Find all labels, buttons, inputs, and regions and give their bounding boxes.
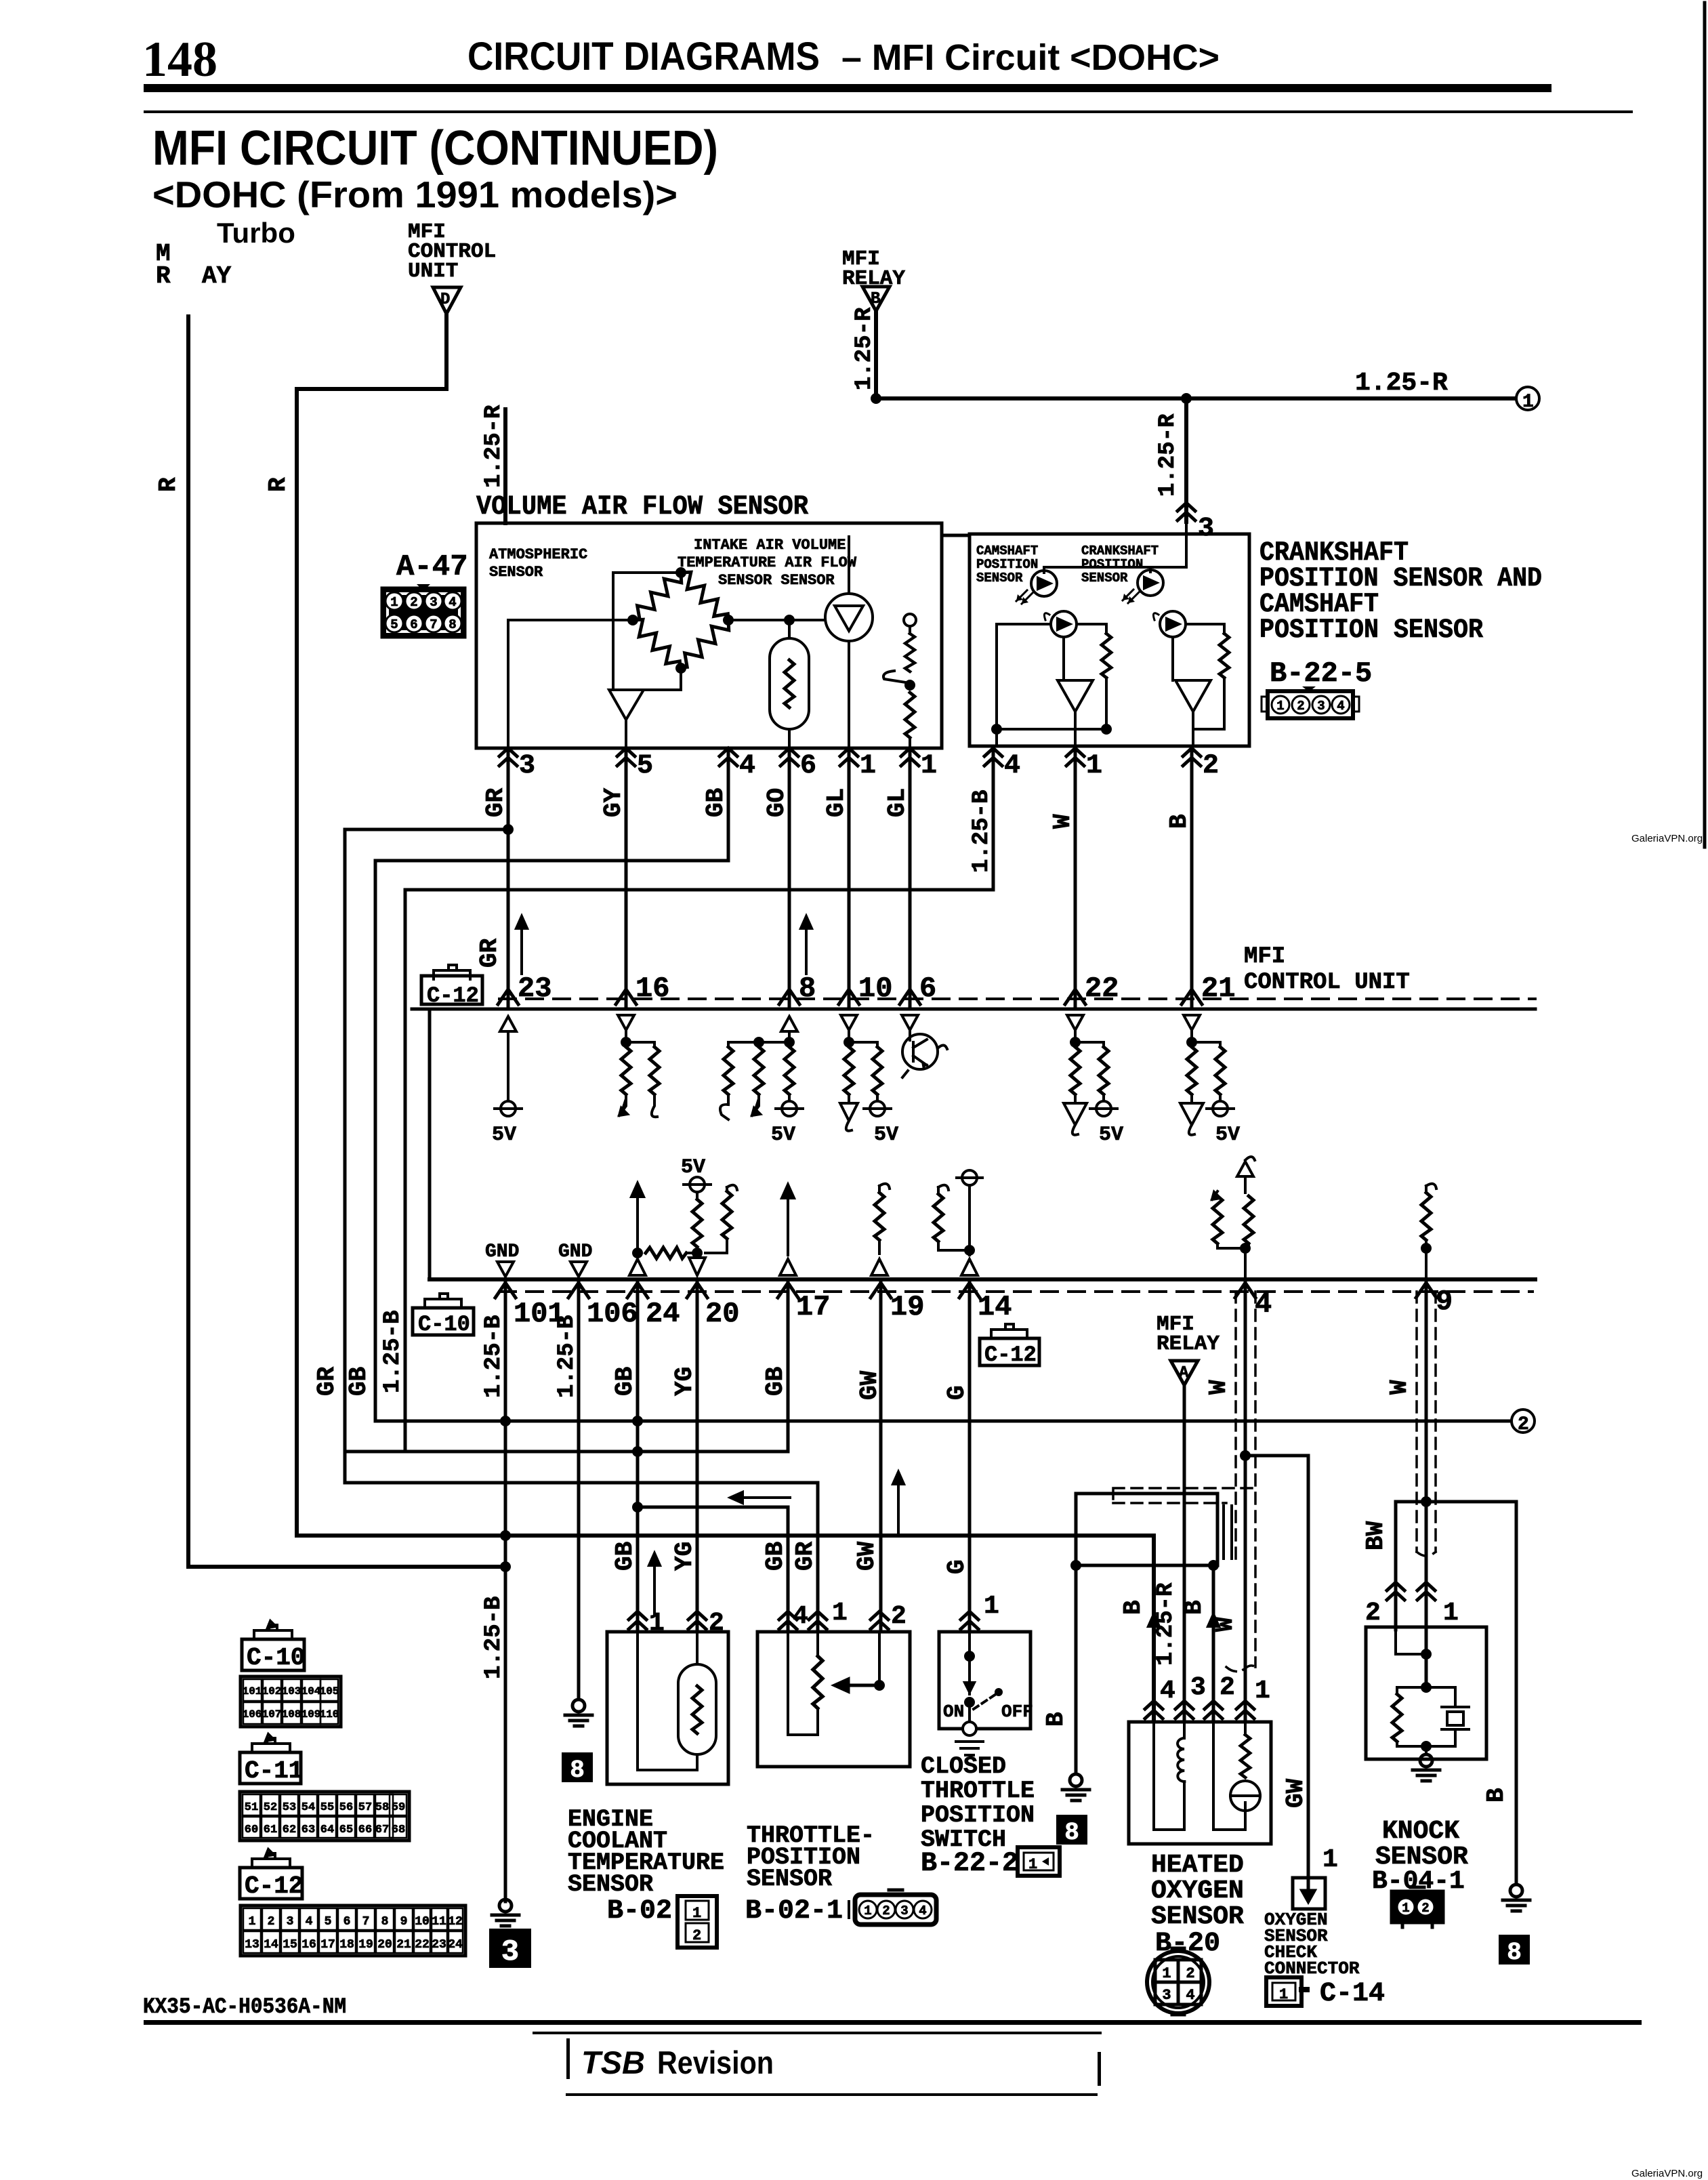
svg-text:23: 23 bbox=[518, 972, 551, 1005]
svg-text:10: 10 bbox=[415, 1915, 430, 1929]
svg-text:105: 105 bbox=[320, 1685, 339, 1698]
heater coil bbox=[1154, 1722, 1184, 1830]
header thick rule bbox=[144, 84, 1551, 92]
CTS internals: switch bbox=[965, 1632, 996, 1709]
svg-text:4: 4 bbox=[739, 751, 755, 781]
svg-text:22: 22 bbox=[1085, 972, 1119, 1005]
pin14 battery sense circle bbox=[957, 1170, 982, 1255]
svg-text:1: 1 bbox=[860, 751, 876, 781]
wire: 1.25-R drop to crank sensor box bbox=[1184, 398, 1188, 522]
svg-text:62: 62 bbox=[283, 1824, 296, 1836]
svg-text:1: 1 bbox=[390, 595, 398, 610]
wire: from MFI control unit D down and left bbox=[297, 314, 446, 1536]
svg-text:THROTTLE: THROTTLE bbox=[921, 1777, 1035, 1805]
svg-text:1.25-B: 1.25-B bbox=[481, 1315, 507, 1398]
svg-text:W: W bbox=[1211, 1617, 1239, 1632]
svg-text:B: B bbox=[871, 290, 880, 308]
dashed shield around wire 9 bbox=[1417, 1292, 1436, 1556]
pressure element with switch (right leg) bbox=[883, 614, 916, 748]
svg-text:3: 3 bbox=[519, 751, 535, 781]
bridge nodes bbox=[675, 567, 686, 578]
wire 20 YG to ECT pin2 bbox=[696, 1279, 699, 1630]
svg-text:6: 6 bbox=[410, 617, 417, 632]
TSB box top line bbox=[533, 2032, 1102, 2034]
svg-text:14: 14 bbox=[264, 1938, 278, 1952]
svg-text:GaleriaVPN.org: GaleriaVPN.org bbox=[1631, 2168, 1703, 2179]
svg-text:1: 1 bbox=[1255, 1677, 1270, 1706]
svg-text:3: 3 bbox=[287, 1915, 294, 1929]
svg-text:106: 106 bbox=[243, 1708, 262, 1721]
svg-text:148: 148 bbox=[142, 32, 217, 87]
svg-text:G: G bbox=[943, 1559, 971, 1574]
svg-text:C-10: C-10 bbox=[418, 1312, 470, 1337]
svg-text:B: B bbox=[1180, 1600, 1208, 1615]
svg-text:1: 1 bbox=[1086, 751, 1102, 781]
svg-text:19: 19 bbox=[358, 1938, 373, 1952]
connector B-20 (round 4 pin) bbox=[1147, 1949, 1209, 2014]
svg-text:10: 10 bbox=[858, 972, 892, 1005]
svg-text:GL: GL bbox=[883, 788, 911, 817]
svg-text:2: 2 bbox=[891, 1602, 907, 1631]
svg-text:2: 2 bbox=[410, 595, 417, 610]
VAF pin chevrons and numbers bbox=[499, 748, 937, 781]
pin23: 5V reference bbox=[492, 1016, 522, 1147]
svg-text:GO: GO bbox=[763, 788, 791, 817]
wire 4 W to HO2S pin1 bbox=[1244, 1279, 1247, 1720]
amp triangle crank bbox=[1175, 680, 1211, 712]
svg-text:G: G bbox=[943, 1385, 971, 1400]
wire: MFI relay B drop bbox=[874, 311, 878, 398]
LED crankshaft bbox=[1123, 570, 1163, 603]
pin10: dual resistors with 5V bbox=[840, 1015, 898, 1147]
knock internal wiring bbox=[1396, 1627, 1455, 1753]
wiper arrow bbox=[835, 1679, 879, 1691]
svg-text:60: 60 bbox=[245, 1824, 258, 1836]
svg-text:9: 9 bbox=[1436, 1286, 1453, 1318]
svg-text:2: 2 bbox=[1365, 1599, 1381, 1628]
svg-text:4: 4 bbox=[306, 1915, 313, 1929]
svg-text:5V: 5V bbox=[874, 1124, 898, 1147]
resistor cam channel bbox=[1102, 634, 1111, 678]
connector triangle B bbox=[862, 287, 890, 311]
VAF sensor box bbox=[476, 523, 942, 748]
knock resistor bbox=[1392, 1694, 1402, 1742]
BW wire down to knock pin2 bbox=[1394, 1502, 1398, 1630]
svg-text:CIRCUIT DIAGRAMS: CIRCUIT DIAGRAMS bbox=[467, 35, 820, 79]
resistor inside oval bbox=[785, 660, 794, 707]
cam bottom bus bbox=[997, 728, 1106, 731]
C-10 label box bbox=[242, 1621, 305, 1672]
svg-text:R: R bbox=[264, 477, 292, 492]
svg-text:GND: GND bbox=[558, 1241, 592, 1262]
svg-text:SENSOR: SENSOR bbox=[747, 1866, 832, 1893]
svg-text:CAMSHAFT: CAMSHAFT bbox=[976, 543, 1038, 558]
ECU pin marks boundary 2 bbox=[495, 1283, 1453, 1330]
up-arrow beside wire 24 bbox=[649, 1553, 660, 1614]
svg-text:6: 6 bbox=[343, 1915, 351, 1929]
svg-text:2: 2 bbox=[709, 1609, 724, 1638]
svg-text:R: R bbox=[154, 477, 182, 492]
svg-text:104: 104 bbox=[301, 1685, 321, 1698]
svg-text:POSITION SENSOR: POSITION SENSOR bbox=[1259, 615, 1483, 646]
svg-text:16: 16 bbox=[636, 972, 669, 1005]
svg-text:D: D bbox=[440, 291, 450, 309]
svg-text:1: 1 bbox=[1162, 1965, 1171, 1982]
svg-text:YG: YG bbox=[671, 1367, 699, 1396]
svg-text:GR: GR bbox=[313, 1366, 341, 1396]
svg-text:SENSOR: SENSOR bbox=[1081, 571, 1128, 585]
svg-text:MFI: MFI bbox=[1244, 944, 1285, 970]
branch to oxygen sensor check connector bbox=[1245, 1456, 1308, 1878]
svg-text:RELAY: RELAY bbox=[1157, 1332, 1220, 1356]
amp triangle cam bbox=[1058, 680, 1093, 712]
svg-text:KX35-AC-H0536A-NM: KX35-AC-H0536A-NM bbox=[143, 1994, 346, 2019]
ECT box bbox=[607, 1632, 728, 1784]
svg-text:1.25-B: 1.25-B bbox=[481, 1597, 507, 1679]
open triangle above boundary pin24 bbox=[629, 1259, 646, 1275]
C-12 connector symbol (ECU top) bbox=[421, 965, 482, 1008]
connector B-02-1 bbox=[849, 1890, 936, 1925]
LED camshaft bbox=[1016, 571, 1057, 604]
svg-text:5: 5 bbox=[390, 617, 398, 632]
svg-text:W: W bbox=[1205, 1380, 1232, 1395]
black box 8 right bbox=[1499, 1935, 1530, 1967]
svg-text:1.25-R: 1.25-R bbox=[1155, 413, 1181, 497]
header thin rule bbox=[144, 110, 1633, 113]
wire GL: VAF pin1 to ECU pin10 bbox=[848, 748, 851, 1008]
svg-text:Turbo: Turbo bbox=[217, 217, 295, 249]
svg-text:24: 24 bbox=[448, 1938, 463, 1952]
svg-text:1: 1 bbox=[692, 1905, 701, 1922]
TSB left tick bbox=[566, 2038, 570, 2079]
connector A-47 (8 pin) bbox=[383, 584, 464, 636]
boundary 2 dashed line bbox=[499, 1290, 1533, 1293]
CTS box bbox=[939, 1632, 1030, 1729]
wire 101 1.25-B to ground bbox=[504, 1279, 507, 1901]
H5: GB tap to TPS pin4 bbox=[638, 1507, 788, 1630]
TPS internals: potentiometer bbox=[788, 1632, 879, 1735]
svg-text:2: 2 bbox=[1421, 1901, 1429, 1916]
svg-text:GW: GW bbox=[1282, 1778, 1310, 1808]
connector C-14 bbox=[1266, 1977, 1307, 2006]
svg-text:2: 2 bbox=[882, 1904, 890, 1918]
svg-text:ON: ON bbox=[943, 1702, 964, 1722]
wire: VAF box to crank box bbox=[942, 534, 970, 537]
svg-text:4: 4 bbox=[1004, 751, 1020, 781]
svg-text:AY: AY bbox=[202, 262, 232, 290]
svg-text:2: 2 bbox=[1297, 699, 1304, 714]
junction 1.25-R tap bbox=[1181, 393, 1192, 404]
svg-text:5: 5 bbox=[637, 751, 653, 781]
svg-text:B: B bbox=[1119, 1600, 1147, 1615]
C-11 label box bbox=[240, 1734, 303, 1785]
svg-text:SENSOR: SENSOR bbox=[1151, 1902, 1244, 1931]
svg-text:Revision: Revision bbox=[657, 2044, 774, 2080]
svg-text:5V: 5V bbox=[771, 1124, 795, 1147]
ground for B wire bbox=[1062, 1774, 1089, 1801]
svg-text:C-12: C-12 bbox=[245, 1872, 303, 1900]
svg-text:C-10: C-10 bbox=[247, 1644, 305, 1672]
svg-text:GB: GB bbox=[762, 1542, 789, 1571]
svg-text:6: 6 bbox=[800, 751, 816, 781]
wire 14 G to throttle switch bbox=[968, 1279, 972, 1630]
parallel resistor pin20 bbox=[727, 1185, 737, 1191]
svg-text:22: 22 bbox=[415, 1938, 430, 1952]
svg-text:18: 18 bbox=[339, 1938, 354, 1952]
photodiode crankshaft bbox=[1153, 611, 1186, 637]
svg-text:1.25-R: 1.25-R bbox=[1355, 369, 1448, 398]
svg-text:107: 107 bbox=[262, 1708, 282, 1721]
svg-text:TSB: TSB bbox=[581, 2044, 645, 2080]
svg-text:1: 1 bbox=[1522, 392, 1534, 413]
junction at relay B corner bbox=[871, 393, 881, 404]
svg-text:110: 110 bbox=[320, 1708, 339, 1721]
svg-text:11: 11 bbox=[432, 1915, 446, 1929]
svg-text:19: 19 bbox=[890, 1291, 924, 1323]
pin19 pull resistor bbox=[879, 1184, 890, 1193]
circled connector 1 bbox=[1516, 387, 1539, 413]
crank pin chevrons and numbers bbox=[984, 748, 1219, 781]
svg-text:HEATED: HEATED bbox=[1151, 1851, 1244, 1880]
svg-text:INTAKE AIR VOLUME: INTAKE AIR VOLUME bbox=[694, 537, 846, 554]
svg-text:KNOCK: KNOCK bbox=[1382, 1817, 1459, 1846]
svg-text:1.25-R: 1.25-R bbox=[1153, 1582, 1179, 1666]
svg-text:B-22-2: B-22-2 bbox=[921, 1849, 1018, 1879]
open triangle pin19 bbox=[871, 1259, 888, 1275]
svg-text:57: 57 bbox=[358, 1801, 372, 1814]
svg-text:15: 15 bbox=[283, 1938, 297, 1952]
TSB box bottom line bbox=[566, 2093, 1098, 2096]
svg-text:GW: GW bbox=[853, 1541, 881, 1571]
C-12 connector grid bbox=[241, 1906, 465, 1956]
svg-text:24: 24 bbox=[646, 1298, 680, 1330]
svg-text:SENSOR: SENSOR bbox=[976, 571, 1023, 585]
svg-text:17: 17 bbox=[796, 1291, 830, 1323]
knock ground bbox=[1413, 1754, 1440, 1781]
pin24 sense wire with arrowhead bbox=[631, 1183, 644, 1253]
up-arrow annotation beside pin 23 bbox=[516, 916, 527, 974]
svg-text:GB: GB bbox=[702, 788, 730, 817]
wire: pin3 feed bus inside box bbox=[1044, 522, 1186, 573]
svg-text:GB: GB bbox=[345, 1367, 373, 1396]
svg-text:2: 2 bbox=[1220, 1673, 1235, 1702]
junction wire4 branch bbox=[1240, 1450, 1251, 1461]
wire GB: VAF pin4 to left rail bbox=[375, 748, 728, 1421]
svg-text:1: 1 bbox=[984, 1592, 999, 1621]
intake air temp sensor oval bbox=[770, 620, 809, 748]
sensor cell circle bbox=[1213, 1722, 1260, 1830]
photodiode camshaft bbox=[1044, 611, 1077, 637]
svg-text:UNIT: UNIT bbox=[408, 260, 458, 283]
svg-text:109: 109 bbox=[301, 1708, 321, 1721]
svg-text:12: 12 bbox=[448, 1915, 463, 1929]
svg-text:OXYGEN: OXYGEN bbox=[1151, 1876, 1244, 1906]
ground right B bbox=[1503, 1885, 1530, 1911]
svg-text:4: 4 bbox=[1160, 1677, 1175, 1706]
wire: bridge right node to oval and vortex sensor bbox=[728, 619, 825, 621]
svg-text:GR: GR bbox=[791, 1541, 819, 1571]
svg-text:2: 2 bbox=[1518, 1414, 1529, 1435]
HO2S box bbox=[1129, 1722, 1271, 1844]
GND triangle 1 bbox=[497, 1262, 514, 1277]
svg-text:1: 1 bbox=[1443, 1599, 1459, 1628]
wire: bridge top to left leg bbox=[613, 573, 681, 690]
svg-text:61: 61 bbox=[264, 1824, 277, 1836]
svg-text:103: 103 bbox=[282, 1685, 301, 1698]
svg-text:GY: GY bbox=[600, 787, 627, 817]
svg-text:GB: GB bbox=[611, 1367, 639, 1396]
ECT internals: thermistor oval bbox=[638, 1632, 716, 1770]
svg-text:5V: 5V bbox=[492, 1124, 516, 1147]
switch pivot and ground bbox=[956, 1702, 983, 1755]
B ground loop: corner, horizontals and verticals bbox=[1076, 1494, 1217, 1774]
H3: rail to TPS pin1 bbox=[345, 1483, 818, 1630]
svg-text:3: 3 bbox=[1190, 1673, 1206, 1702]
wire 1.25-R relay A to HO2S pin3 bbox=[1183, 1385, 1186, 1720]
svg-text:BW: BW bbox=[1362, 1521, 1390, 1550]
svg-text:B: B bbox=[1042, 1712, 1070, 1727]
svg-text:A: A bbox=[1179, 1364, 1189, 1382]
C-12 label box bbox=[240, 1849, 303, 1900]
ground for 101 wire bbox=[492, 1899, 519, 1926]
svg-text:16: 16 bbox=[301, 1938, 316, 1952]
wire 19 GW to TPS pin2 bbox=[879, 1279, 883, 1630]
svg-text:59: 59 bbox=[392, 1801, 405, 1814]
svg-text:1: 1 bbox=[1322, 1845, 1338, 1874]
wire: 1.25-R stub above VAF box bbox=[503, 409, 507, 523]
svg-text:8: 8 bbox=[1507, 1939, 1522, 1967]
amp triangle (atmospheric) bbox=[609, 690, 644, 720]
wire GO: VAF pin6 to ECU pin8 bbox=[788, 748, 791, 1008]
wire W: crank pin1 to ECU pin22 bbox=[1074, 748, 1077, 1008]
wire 9 W to knock sensor bbox=[1425, 1279, 1428, 1687]
connector B-04-1 bbox=[1392, 1887, 1442, 1927]
B wire to ground (right) bbox=[1515, 1502, 1518, 1884]
svg-text:1.25-R: 1.25-R bbox=[852, 307, 877, 390]
svg-text:108: 108 bbox=[282, 1708, 301, 1721]
wire GL2: VAF pin1 to ECU pin6 bbox=[909, 748, 912, 1008]
svg-text:4: 4 bbox=[1186, 1987, 1194, 2004]
open triangle pin17 bbox=[780, 1259, 796, 1275]
svg-text:2: 2 bbox=[1186, 1965, 1194, 1982]
H6: left R rail to 1.25-B ground wire bbox=[188, 1565, 505, 1569]
pin4 driver: flag triangle and dual resistors bbox=[1212, 1157, 1255, 1279]
C-12 connector symbol (pin 14) bbox=[980, 1324, 1039, 1367]
svg-text:8: 8 bbox=[799, 972, 816, 1005]
svg-text:B-22-5: B-22-5 bbox=[1270, 657, 1372, 690]
wire GR: VAF pin3 to ECU pin23 bbox=[507, 748, 510, 1008]
HO2S pin chevrons and numbers bbox=[1145, 1673, 1270, 1719]
svg-text:GW: GW bbox=[856, 1370, 883, 1400]
sensor cell resistor bbox=[1244, 1722, 1247, 1735]
svg-text:66: 66 bbox=[358, 1824, 372, 1836]
ground for 106 wire bbox=[565, 1700, 592, 1726]
crank channel wiring bbox=[1173, 624, 1224, 729]
svg-text:106: 106 bbox=[587, 1298, 638, 1330]
svg-text:54: 54 bbox=[301, 1801, 315, 1814]
pin6: transistor driver bbox=[902, 1015, 947, 1077]
svg-text:6: 6 bbox=[919, 972, 936, 1005]
svg-text:3: 3 bbox=[1162, 1987, 1171, 2004]
svg-text:1: 1 bbox=[649, 1609, 665, 1638]
svg-text:4: 4 bbox=[793, 1602, 808, 1631]
svg-text:B-02-1: B-02-1 bbox=[745, 1896, 843, 1927]
pin16: dual pull resistors bbox=[618, 1015, 659, 1117]
wire: amp out to pin 5 bbox=[625, 720, 627, 748]
svg-text:52: 52 bbox=[264, 1801, 277, 1814]
scan edge line (right) bbox=[1703, 3, 1707, 847]
wire: left R rail from MFI relay (cropped) bbox=[186, 316, 190, 1567]
svg-text:3: 3 bbox=[430, 595, 437, 610]
svg-text:5: 5 bbox=[325, 1915, 332, 1929]
up-arrow annotation beside pin 8 bbox=[801, 916, 812, 974]
svg-text:58: 58 bbox=[375, 1801, 389, 1814]
svg-text:4: 4 bbox=[919, 1904, 926, 1918]
svg-text:20: 20 bbox=[377, 1938, 392, 1952]
black box 8 (ECT ground) bbox=[562, 1752, 593, 1784]
svg-text:14: 14 bbox=[978, 1291, 1012, 1323]
svg-text:5V: 5V bbox=[681, 1156, 705, 1179]
C-11 connector grid bbox=[240, 1792, 409, 1840]
svg-text:CLOSED: CLOSED bbox=[921, 1753, 1006, 1780]
ECT pin chevrons and numbers bbox=[629, 1611, 646, 1629]
svg-text:1.25-B: 1.25-B bbox=[554, 1315, 580, 1398]
svg-text:GR: GR bbox=[476, 938, 503, 968]
svg-text:MFI CIRCUIT (CONTINUED): MFI CIRCUIT (CONTINUED) bbox=[152, 121, 718, 176]
CTS pin chevron bbox=[961, 1611, 978, 1629]
svg-text:SENSOR SENSOR: SENSOR SENSOR bbox=[718, 572, 835, 589]
junction GR tap bbox=[503, 824, 514, 835]
svg-text:GB: GB bbox=[762, 1367, 789, 1396]
svg-text:65: 65 bbox=[339, 1824, 353, 1836]
wire 106 1.25-B to ground bbox=[577, 1279, 581, 1700]
connector B-22-5 bbox=[1262, 686, 1359, 718]
C-10 connector grid bbox=[241, 1677, 341, 1727]
svg-text:C-12: C-12 bbox=[984, 1342, 1037, 1367]
H1: GB rail to circled 2 bbox=[375, 1420, 1512, 1423]
pin14 pull resistor bbox=[938, 1185, 949, 1194]
svg-text:20: 20 bbox=[705, 1298, 739, 1330]
svg-text:ATMOSPHERIC: ATMOSPHERIC bbox=[489, 546, 587, 563]
svg-text:B: B bbox=[1165, 814, 1193, 829]
ECU boundary 1 dashed line bbox=[499, 998, 1535, 1000]
svg-text:7: 7 bbox=[430, 617, 437, 632]
svg-text:C-14: C-14 bbox=[1320, 1979, 1385, 2009]
svg-text:4: 4 bbox=[449, 595, 456, 610]
svg-text:1: 1 bbox=[1279, 1986, 1288, 2003]
svg-text:53: 53 bbox=[283, 1801, 296, 1814]
knock sensor box bbox=[1366, 1627, 1486, 1759]
piezo element bbox=[1442, 1707, 1469, 1729]
svg-text:1: 1 bbox=[1028, 1856, 1037, 1873]
svg-text:3: 3 bbox=[1198, 514, 1214, 544]
ECU pin marks boundary 1 bbox=[498, 972, 1235, 1005]
ECU boundary 1 solid line bbox=[412, 1008, 1535, 1011]
wire: top 1.25-R horizontal bus to circled 1 bbox=[876, 396, 1516, 400]
svg-text:POSITION: POSITION bbox=[921, 1802, 1035, 1829]
connector B-22-2 bbox=[1018, 1847, 1060, 1876]
svg-text:51: 51 bbox=[245, 1801, 258, 1814]
crank/cam sensor box bbox=[970, 534, 1249, 746]
shield stub lines bbox=[1224, 1506, 1232, 1559]
svg-text:8: 8 bbox=[449, 617, 456, 632]
svg-text:CRANKSHAFT: CRANKSHAFT bbox=[1081, 543, 1159, 558]
svg-text:55: 55 bbox=[320, 1801, 334, 1814]
svg-text:GL: GL bbox=[822, 788, 850, 817]
svg-text:YG: YG bbox=[671, 1542, 699, 1571]
pin9 pull resistor bbox=[1421, 1184, 1436, 1279]
svg-text:TEMPERATURE AIR FLOW: TEMPERATURE AIR FLOW bbox=[678, 554, 857, 571]
